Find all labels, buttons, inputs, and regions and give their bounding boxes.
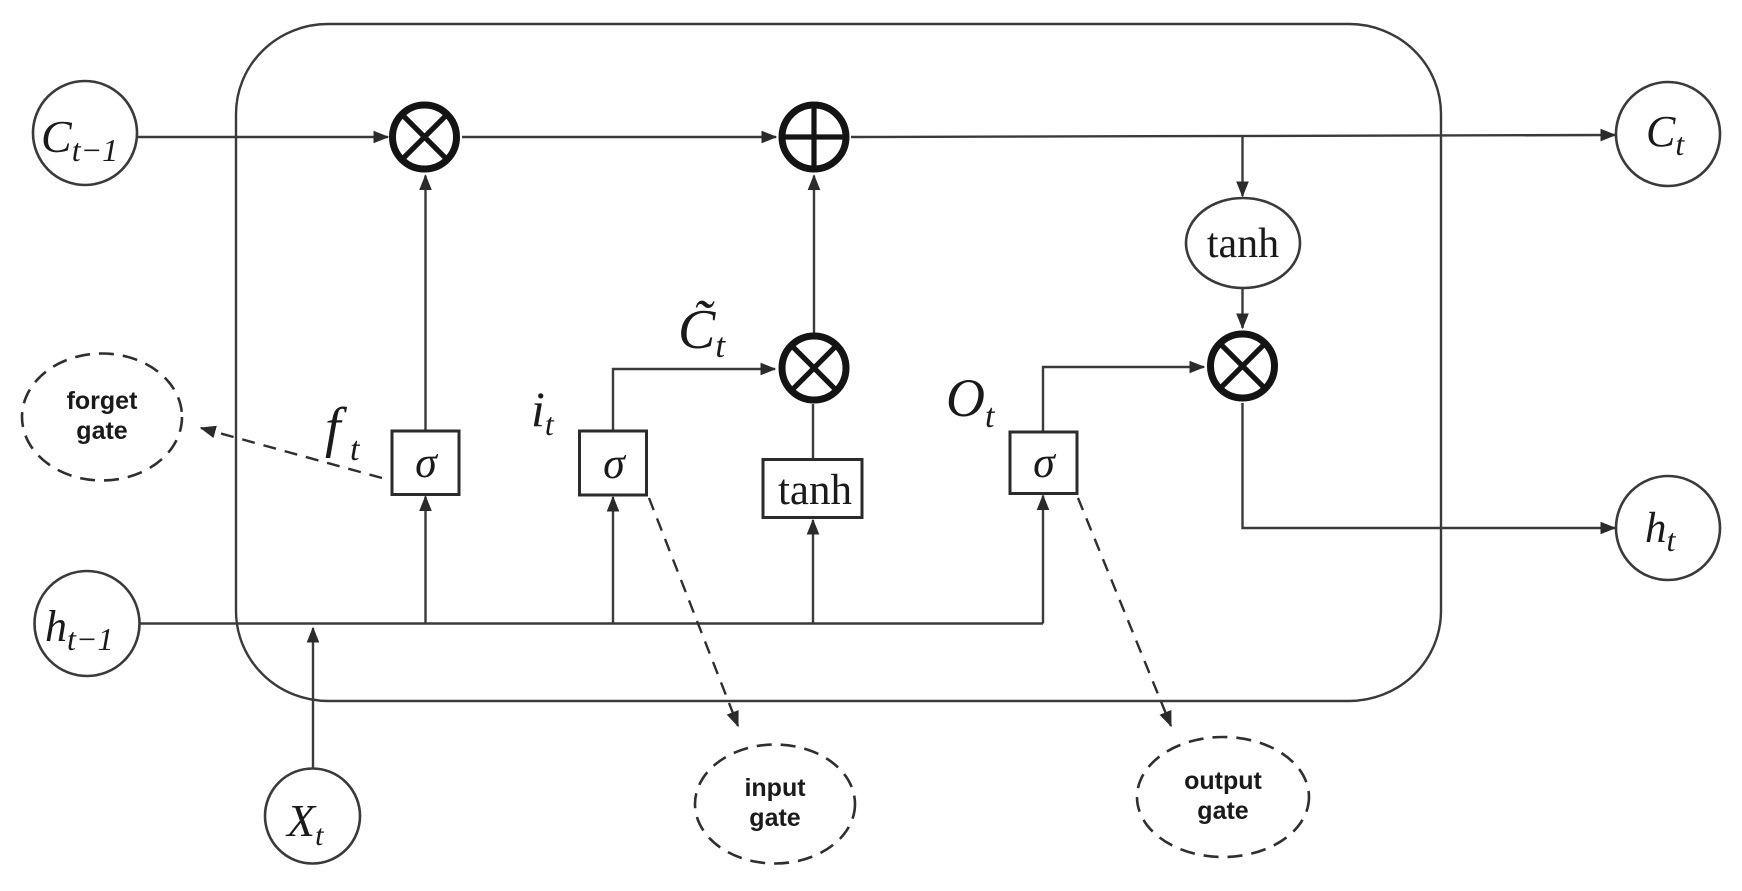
svg-text:gate: gate [1197,797,1249,825]
svg-text:tanh: tanh [1207,221,1279,267]
svg-text:it: it [531,381,555,442]
svg-text:gate: gate [76,417,128,445]
svg-text:t: t [350,431,361,468]
svg-text:f: f [325,397,348,459]
svg-text:σ: σ [603,439,627,488]
svg-text:σ: σ [415,438,439,487]
svg-text:forget: forget [67,387,139,415]
svg-text:σ: σ [1033,438,1057,487]
svg-text:input: input [744,774,806,802]
svg-text:C̃t: C̃t [678,299,726,365]
svg-text:gate: gate [749,804,801,832]
svg-text:tanh: tanh [778,467,852,514]
svg-text:output: output [1184,767,1262,795]
svg-text:Ot: Ot [946,368,996,435]
